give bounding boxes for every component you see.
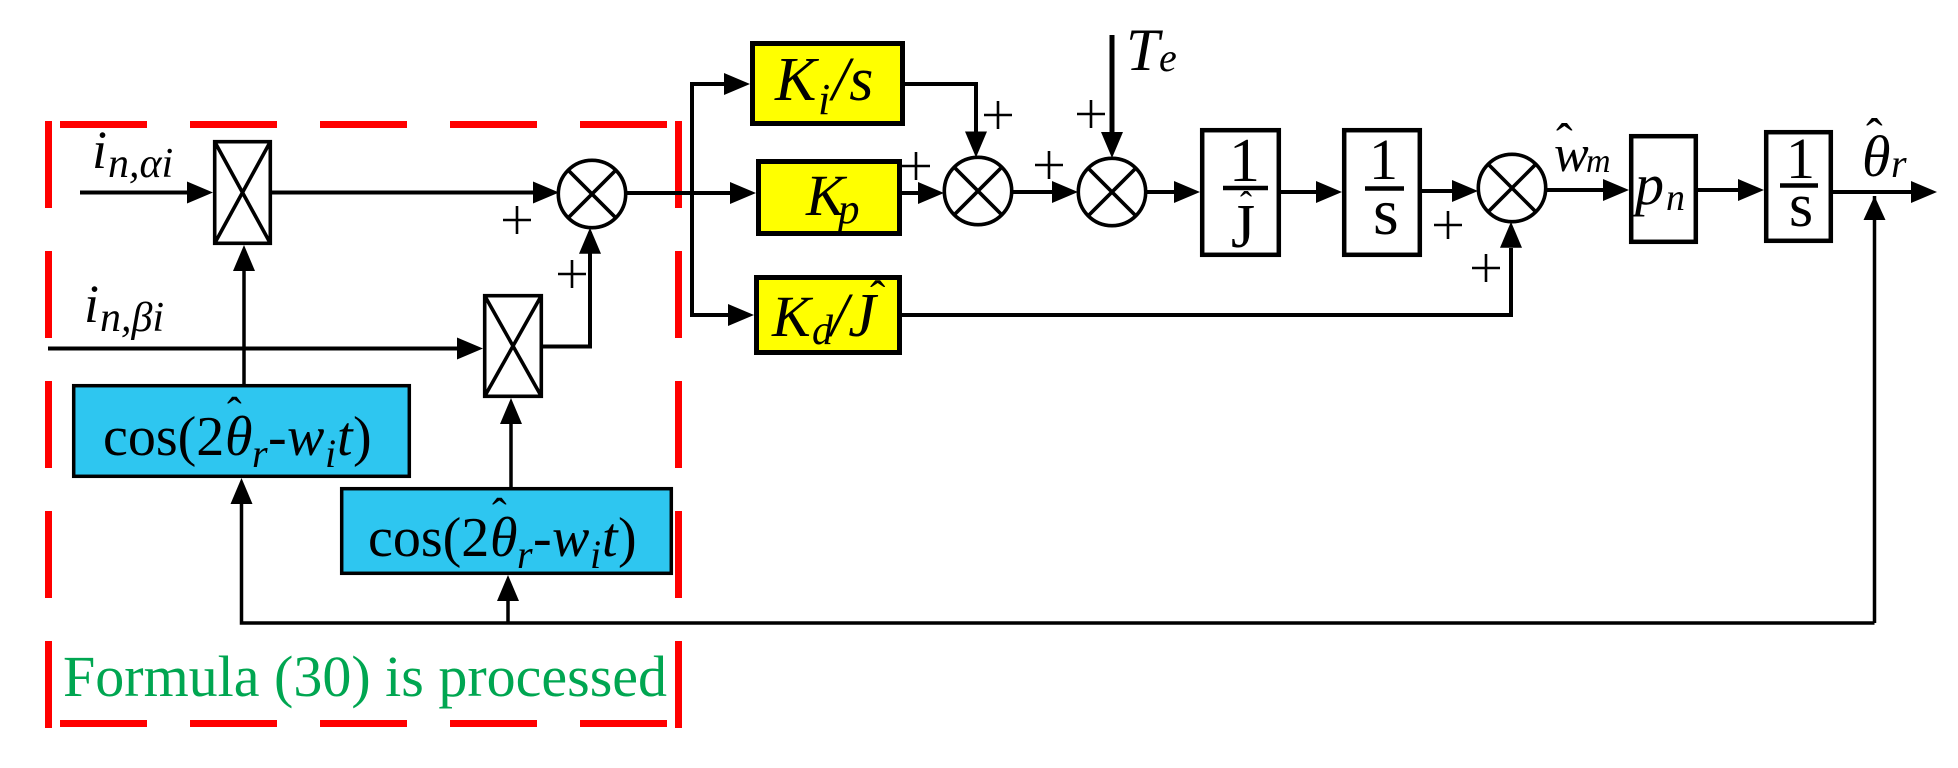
wire 1/s to sum S4 (1422, 180, 1478, 202)
svg-text:n: n (1666, 177, 1685, 219)
wire feedback tap arrow up at output (1864, 196, 1886, 220)
block cos2 (342, 489, 672, 577)
svg-text:K: K (771, 284, 814, 349)
svg-text:ˆ: ˆ (227, 389, 242, 438)
svg-text:K: K (774, 46, 820, 114)
svg-text:i: i (92, 120, 107, 180)
node theta-hat-r output label (1862, 108, 1907, 189)
plus sign above Kp output (902, 152, 930, 180)
wire in,beta-i input (48, 338, 483, 360)
svg-text:i: i (818, 75, 830, 124)
wire branch to Ki/s (690, 73, 750, 95)
svg-text:i: i (590, 532, 601, 577)
svg-text:e: e (1159, 35, 1177, 80)
wire branch vertical to Ki and Kd (690, 84, 694, 315)
block cos1 (74, 386, 410, 477)
svg-text:p: p (835, 186, 860, 233)
wire in,alpha-i input (80, 182, 213, 204)
svg-text:): ) (353, 406, 372, 468)
svg-text:J: J (1231, 193, 1255, 261)
summing junction S4 (1478, 154, 1545, 221)
wire output theta-hat-r (1833, 181, 1937, 203)
svg-text:n,αi: n,αi (108, 141, 173, 187)
svg-text:cos(2: cos(2 (103, 406, 224, 468)
node in,alpha-i input label (92, 120, 173, 187)
node w-hat-m label (1554, 113, 1611, 183)
plus sign between S2 S3 (1035, 151, 1063, 179)
plus sign below S4 (1472, 254, 1500, 282)
svg-text:r: r (517, 532, 533, 577)
svg-text:): ) (618, 507, 637, 569)
block 1/s first (1344, 127, 1420, 255)
summing junction S3 (1078, 158, 1145, 225)
wire cos2 to M2 (500, 398, 522, 487)
svg-text:-: - (268, 406, 287, 468)
wire feedback bottom horizontal (242, 500, 1875, 623)
plus sign right of Ki/s drop (984, 101, 1012, 129)
block 1/J-hat (1202, 127, 1279, 261)
svg-text:/s: /s (829, 46, 873, 114)
svg-text:T: T (1126, 17, 1163, 83)
wire feedback branch up into cos2 (497, 575, 519, 623)
wire cos1 to M1 (233, 245, 255, 384)
wire Kd/J feedforward to S4 bottom (900, 222, 1522, 315)
wire Kp to sum S2 (900, 182, 944, 204)
multiplier M1 (215, 142, 271, 244)
wire S4 to pn (1546, 179, 1629, 201)
svg-text:t: t (602, 507, 619, 569)
wire S2 to S3 (1012, 181, 1078, 203)
plus sign at S1 left (503, 206, 531, 234)
summing junction S2 (944, 157, 1011, 224)
wire S3 to 1/J block (1146, 181, 1200, 203)
multiplier M2 (485, 296, 542, 397)
plus sign left of Te (1077, 100, 1105, 128)
wire feedback up into cos1 (231, 478, 253, 504)
block pn (1631, 136, 1696, 242)
svg-text:w: w (287, 406, 324, 468)
wire Ki/s to sum S2 top (905, 84, 987, 158)
block Ki/s (753, 44, 903, 125)
wire pn to 1/s second (1698, 179, 1764, 201)
wire feedback vertical right (1873, 196, 1877, 623)
wire Te into S3 (1101, 35, 1123, 158)
svg-text:r: r (252, 431, 268, 476)
svg-text:s: s (1373, 176, 1399, 249)
svg-text:ˆ: ˆ (1556, 113, 1573, 169)
svg-text:ˆ: ˆ (1866, 108, 1883, 164)
svg-text:i: i (325, 431, 336, 476)
block Kp (759, 162, 900, 234)
node in,beta-i input label (84, 274, 164, 341)
svg-text:ˆ: ˆ (870, 271, 885, 322)
wire S1 to Kp with branch (626, 182, 756, 204)
block Kd/J-hat (757, 271, 900, 354)
svg-text:p: p (1631, 152, 1664, 217)
wire branch to Kd/J (690, 304, 754, 326)
svg-text:t: t (337, 406, 354, 468)
svg-text:n,βi: n,βi (100, 295, 164, 341)
svg-text:w: w (552, 507, 589, 569)
svg-text:Formula (30) is processed: Formula (30) is processed (63, 644, 667, 709)
svg-text:m: m (1586, 143, 1611, 180)
summing junction S1 (558, 160, 625, 227)
wire M1 to sum S1 (272, 182, 559, 204)
svg-text:r: r (1891, 141, 1907, 186)
svg-text:ˆ: ˆ (492, 490, 507, 539)
wire M2 to sum S1 bottom (543, 228, 601, 347)
dashed red box: Formula (30) region (49, 121, 679, 728)
plus sign at S1 bottom (558, 260, 586, 288)
svg-text:i: i (84, 274, 99, 334)
svg-text:-: - (533, 507, 552, 569)
node Te input label (1126, 17, 1177, 83)
svg-text:s: s (1789, 172, 1813, 240)
plus sign left below S4 (1434, 211, 1462, 239)
svg-text:cos(2: cos(2 (368, 507, 489, 569)
block 1/s second (1766, 126, 1831, 241)
wire 1/J to 1/s (1281, 181, 1342, 203)
